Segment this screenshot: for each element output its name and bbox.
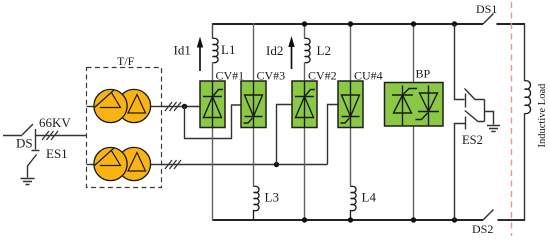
disconnect switch DS2 xyxy=(483,210,494,221)
node top bus ES2 xyxy=(452,21,457,26)
thyristor valve box CV#2 xyxy=(292,81,317,128)
wire branch BP top xyxy=(413,23,415,83)
wire transformer bottom secondary stubs xyxy=(87,164,162,166)
node top bus CV#2 xyxy=(302,21,307,26)
svg-text:CV#2: CV#2 xyxy=(308,69,337,83)
wire transformer top secondary stubs xyxy=(87,106,162,108)
delta symbol top-right xyxy=(128,95,146,114)
node top secondary junction xyxy=(182,104,187,109)
disconnect switch DS xyxy=(22,124,36,139)
svg-text:L3: L3 xyxy=(265,190,279,205)
wire riser to CV#2 xyxy=(277,105,293,165)
wire branch CV#2 top xyxy=(304,23,306,39)
thyristor symbol CU#4 xyxy=(341,82,360,128)
top bus right of DS1 xyxy=(497,23,525,25)
thyristor valve box CV#1 xyxy=(200,81,225,128)
red dashed boundary line xyxy=(511,2,513,236)
arrow Id1 xyxy=(197,37,203,72)
svg-text:L4: L4 xyxy=(362,190,377,205)
svg-text:Id1: Id1 xyxy=(174,43,191,58)
svg-text:DS2: DS2 xyxy=(472,222,493,236)
svg-text:ES2: ES2 xyxy=(462,133,483,147)
inductor L1 xyxy=(213,38,219,62)
inductor load coil xyxy=(525,81,531,114)
svg-text:CV#3: CV#3 xyxy=(257,69,286,83)
bypass valve box BP xyxy=(385,83,444,127)
svg-text:ES1: ES1 xyxy=(46,146,68,161)
wire branch CU#4 top xyxy=(350,23,352,82)
wire 66KV feeder left segment xyxy=(3,135,22,137)
top bus xyxy=(213,23,483,25)
transformer T/F dashed box xyxy=(87,68,162,188)
earthing switch ES2 lower xyxy=(455,111,485,221)
inductor L3 xyxy=(254,186,260,220)
svg-text:DS1: DS1 xyxy=(476,2,497,16)
thyristor valve box CU#4 xyxy=(338,81,363,128)
thyristor symbol CV#3 xyxy=(244,82,263,128)
wire branch CV#1 bottom xyxy=(212,127,214,221)
inductor L2 xyxy=(305,38,311,62)
node top bus BP xyxy=(411,21,416,26)
wire branch BP bottom xyxy=(413,126,415,221)
wire branch CU#4 to L4 xyxy=(350,127,352,187)
node bottom bus L4 xyxy=(348,217,353,222)
svg-text:CU#4: CU#4 xyxy=(354,69,383,83)
node top bus CU#4 xyxy=(348,21,353,26)
thyristor symbol CV#2 xyxy=(295,82,315,128)
wire branch CV#2 bottom xyxy=(304,127,306,221)
svg-text:DS: DS xyxy=(16,136,33,151)
ground symbol for ES1 xyxy=(21,179,35,185)
ground symbol for ES2 xyxy=(487,126,500,132)
earthing switch ES2 upper xyxy=(455,24,485,108)
disconnect switch DS1 xyxy=(483,14,494,25)
three-phase slash marks on 66KV line xyxy=(42,131,58,140)
thyristor symbol CV#1 xyxy=(203,82,223,128)
extended-delta symbol bottom-left xyxy=(95,148,121,166)
wire L2 to CV#2 xyxy=(304,63,306,82)
bottom bus xyxy=(213,219,483,221)
wire branch CV#3 top xyxy=(253,23,255,82)
wire branch CV#3 to L3 xyxy=(253,127,255,187)
arrow Id2 xyxy=(288,36,294,69)
node bottom bus CV#2 xyxy=(302,217,307,222)
wire DS to transformer xyxy=(36,135,87,137)
wire top secondary to CV#1 xyxy=(162,106,201,108)
thyristor valve box CV#3 xyxy=(241,81,266,128)
wire bottom secondary line xyxy=(162,164,328,166)
thyristor symbol BP left (up) xyxy=(392,86,417,126)
wire load branch bottom xyxy=(498,114,525,222)
bottom bus right of DS2 xyxy=(498,219,525,221)
delta symbol bottom-right xyxy=(128,153,146,172)
svg-text:L1: L1 xyxy=(221,42,235,57)
svg-text:BP: BP xyxy=(416,67,431,81)
svg-text:CV#1: CV#1 xyxy=(216,69,245,83)
wire branch CV#1 top xyxy=(212,23,214,39)
inductor L4 xyxy=(351,186,357,220)
wire load branch right xyxy=(524,23,526,81)
thyristor symbol BP right (down) xyxy=(416,86,440,126)
wire L1 to CV#1 xyxy=(212,63,214,82)
svg-text:T/F: T/F xyxy=(117,54,135,68)
extended-delta symbol top-left xyxy=(95,90,121,108)
svg-text:Inductive Load: Inductive Load xyxy=(537,83,548,148)
svg-text:Id2: Id2 xyxy=(266,43,283,58)
node bottom bus ES2 xyxy=(452,217,457,222)
transformer winding circle bottom-right xyxy=(117,147,150,180)
transformer winding circle bottom-left xyxy=(94,147,127,180)
wire detour under CV#1 to CV#3 xyxy=(185,105,242,139)
wire ES2 common to ground xyxy=(485,100,494,125)
three-phase slash marks on bottom secondary xyxy=(165,160,181,169)
earthing switch ES1 xyxy=(28,139,40,178)
svg-text:66KV: 66KV xyxy=(39,115,71,130)
transformer winding circle top-left xyxy=(94,89,127,122)
node bottom secondary junction xyxy=(274,162,279,167)
transformer winding circle top-right xyxy=(117,89,150,122)
svg-text:L2: L2 xyxy=(317,43,331,58)
node bottom bus BP xyxy=(411,217,416,222)
wire riser to CU#4 xyxy=(328,105,339,165)
three-phase slash marks on top secondary xyxy=(165,102,181,111)
